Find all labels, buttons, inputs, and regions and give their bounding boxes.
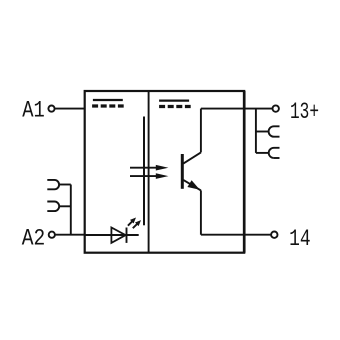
svg-text:14: 14 — [289, 226, 311, 252]
svg-text:13+: 13+ — [290, 99, 319, 125]
svg-text:A2: A2 — [22, 225, 46, 251]
svg-text:A1: A1 — [22, 97, 45, 123]
